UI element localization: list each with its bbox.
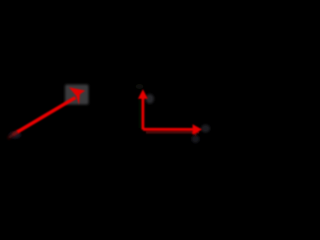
component vy: arrowhead (138, 89, 148, 99)
vector v: dark faded tail of inclined arrow (8, 133, 16, 139)
vector diagram: red vector and its components on black background (0, 0, 220, 170)
medium-red fade of inclined arrow tail (12, 130, 19, 136)
component vy: vertical red arrow shaft (142, 99, 145, 130)
component vx: horizontal red arrow shaft (143, 128, 193, 131)
vector v: inclined red arrow shaft (16, 87, 202, 137)
faint green artifact above vertical arrowhead (136, 84, 144, 89)
faint smudge right of horizontal arrow tip (201, 125, 210, 133)
grey label box behind vector tip (65, 85, 89, 105)
dark shadow under horizontal arrow (146, 131, 199, 133)
faint smudge below horizontal arrow tip (192, 135, 200, 143)
faint green artifact left of vertical shaft (139, 100, 141, 128)
dark red droop below horizontal arrowhead (193, 132, 198, 138)
faint smudge below vector tail (9, 132, 21, 139)
vector v: arrowhead (69, 87, 85, 104)
faint smudge right of vertical arrowhead (146, 94, 154, 104)
component vx: arrowhead (193, 124, 202, 135)
